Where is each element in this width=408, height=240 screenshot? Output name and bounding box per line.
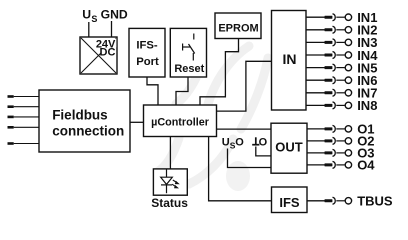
OUT box [271,123,307,173]
svg-text:O: O [235,137,244,149]
fieldbus pin 2 [8,105,14,108]
connector IN6 pin [325,79,333,82]
wire IN4 stub [306,54,325,56]
wire IN7 link [336,92,344,94]
svg-text:O4: O4 [357,158,375,173]
LED D1 arrow 1 [173,180,177,182]
wire IN5 stub [306,67,325,69]
connector O1 pin [325,127,333,130]
connector IN8 socket [333,102,336,109]
connector IN6 socket [333,77,336,84]
svg-text:Port: Port [136,56,159,68]
terminal O4 circle [345,162,351,168]
IFS box [272,187,308,213]
connector O3 pin [325,151,333,154]
connector IN8 pin [325,104,333,107]
svg-text:Status: Status [151,196,188,210]
wire IN8 stub [306,104,325,106]
terminal IN5 circle [345,64,351,70]
connector O3 socket [333,149,336,156]
svg-text:IN8: IN8 [357,98,377,113]
svg-text:O: O [259,137,268,149]
wire IN2 stub [306,29,325,31]
wire uController to OUT [217,128,272,130]
wire TBUS stub [307,200,325,202]
wire IN3 stub [306,41,325,43]
label 24V DC [95,39,117,48]
fieldbus pin 5 [8,142,14,145]
wire US supply [88,22,90,37]
switch S1 top contact [193,34,195,40]
IFS-Port box [129,28,165,77]
wire O2 link [336,140,344,142]
connector IN5 pin [325,66,333,69]
wire IN8 link [336,104,344,106]
terminal IN3 circle [345,39,351,45]
connector IN4 socket [333,52,336,59]
wire uController to IFS [209,137,272,201]
watermark swirl [157,46,268,191]
wire IN5 link [336,67,344,69]
Reset box [170,28,206,77]
wire GND [111,21,113,37]
svg-text:DC: DC [100,46,116,58]
power supply diagonal 1 [81,38,116,73]
Status box [153,169,187,195]
wire EPROM to uController [200,39,239,106]
connector IN7 pin [325,91,333,94]
svg-text:S: S [91,14,97,24]
power supply diagonal 2 [81,38,116,73]
connector IN1 socket [333,14,336,21]
connector TBUS pin [325,199,333,202]
Fieldbus connection box [39,90,130,152]
svg-text:µController: µController [151,117,210,129]
wire IFS-Port to uController [147,77,158,105]
microcontroller box U1 [144,105,217,137]
connector O4 socket [333,161,336,168]
terminal TBUS circle [345,198,351,204]
connector O2 pin [325,139,333,142]
terminal O2 circle [345,138,351,144]
connector O2 socket [333,137,336,144]
LED D1 arrow 2 [172,184,176,186]
terminal IN4 circle [345,52,351,58]
EPROM box [215,13,261,39]
wire O4 link [336,164,344,166]
terminal O3 circle [345,150,351,156]
fieldbus pin 4 [8,126,14,129]
svg-text:U: U [82,7,91,21]
wire Reset to uController [176,77,188,105]
connector IN5 socket [333,64,336,71]
terminal O1 circle [345,126,351,132]
svg-text:GND: GND [101,7,128,21]
wire IN6 link [336,79,344,81]
LED D1 triangle [161,177,173,184]
svg-text:OUT: OUT [275,139,303,154]
connector TBUS socket [333,197,336,204]
svg-text:Fieldbus: Fieldbus [52,108,108,123]
switch S1 lever [189,44,195,54]
wire IN4 link [336,54,344,56]
wire O3 stub [307,152,325,154]
wire O2 stub [307,140,325,142]
fieldbus pin 3 [8,116,14,119]
svg-text:U: U [222,137,230,149]
wire fieldbus to uController [130,121,144,123]
wire TBUS link [336,200,344,202]
connector IN2 pin [325,28,333,31]
connector IN7 socket [333,89,336,96]
terminal IN8 circle [345,102,351,108]
connector IN3 socket [333,39,336,46]
wire uController to Status [169,137,171,169]
fieldbus pin 1 [8,95,14,98]
svg-text:connection: connection [52,124,124,139]
switch S1 bottom contact [192,53,194,61]
terminal IN1 circle [345,14,351,20]
connector IN4 pin [325,54,333,57]
terminal IN2 circle [345,27,351,33]
svg-text:IFS-: IFS- [136,39,158,51]
wire IN1 stub [306,16,325,18]
IN box [272,11,307,111]
connector O1 socket [333,125,336,132]
wire IN7 stub [306,92,325,94]
svg-text:IN: IN [283,51,297,67]
connector IN2 socket [333,26,336,33]
wire O1 stub [307,128,325,130]
power supply 24V DC box [80,37,117,74]
switch S1 actuator rod [183,46,191,48]
connector IN3 pin [325,41,333,44]
connector O4 pin [325,163,333,166]
wire IN1 link [336,16,344,18]
terminal IN7 circle [345,90,351,96]
wire IN3 link [336,41,344,43]
svg-text:IFS: IFS [279,195,300,210]
wire O4 stub [307,164,325,166]
wire uController to IN [217,61,272,111]
label ground O [255,137,257,144]
LED D1 cathode line [166,185,168,193]
LED D1 cathode bar [161,184,172,186]
wire IN6 stub [306,79,325,81]
svg-text:EPROM: EPROM [218,22,258,34]
svg-text:Reset: Reset [174,63,204,75]
connector IN1 pin [325,16,333,19]
switch S1 actuator bar [182,44,184,51]
svg-text:TBUS: TBUS [357,194,393,209]
wire IN2 link [336,29,344,31]
LED D1 anode line [166,169,168,177]
wire ground O to OUT [256,147,271,156]
terminal IN6 circle [345,77,351,83]
wire O1 link [336,128,344,130]
wire O3 link [336,152,344,154]
wire USO to OUT [228,149,272,168]
